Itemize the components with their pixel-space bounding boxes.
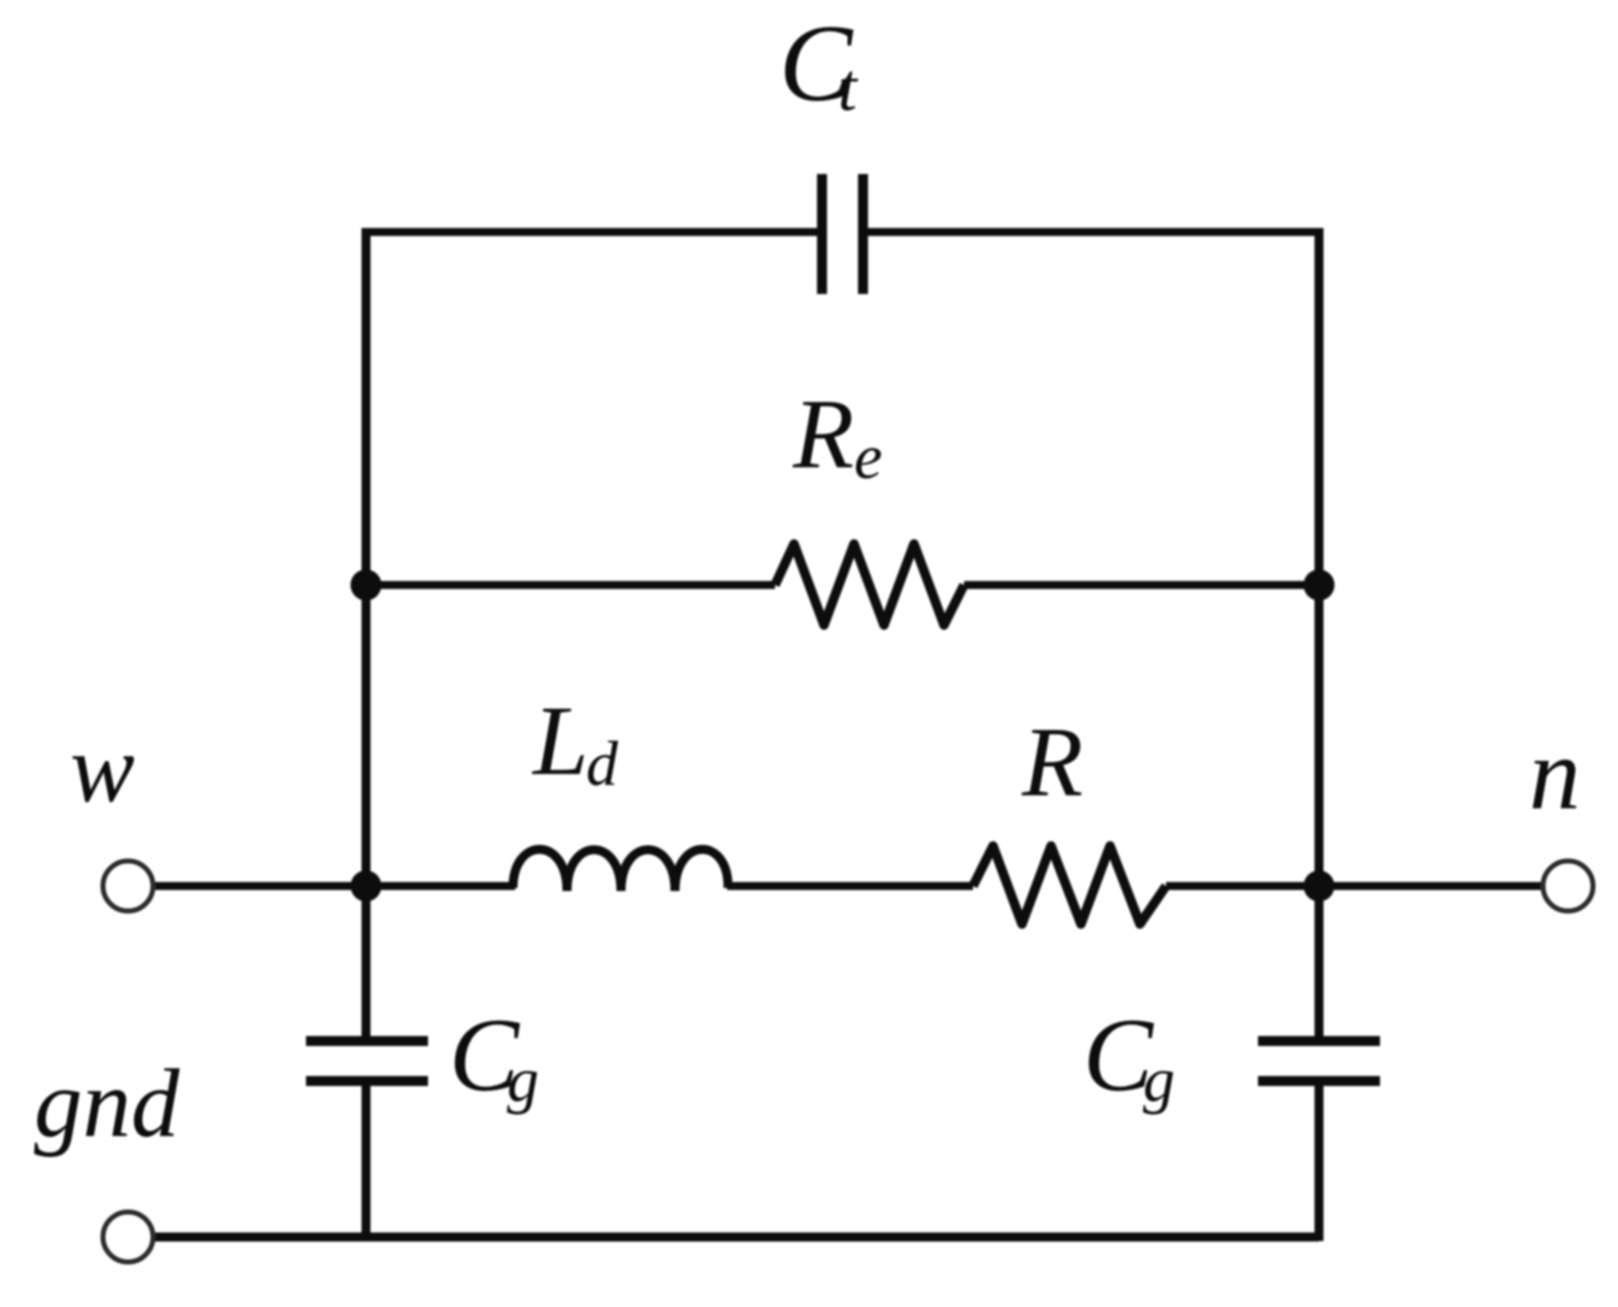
svg-text:gnd: gnd	[34, 1050, 180, 1157]
svg-text:R: R	[1021, 706, 1083, 817]
svg-text:g: g	[507, 1044, 539, 1115]
svg-text:R: R	[792, 378, 854, 489]
svg-text:L: L	[531, 685, 589, 796]
svg-text:g: g	[1143, 1044, 1175, 1115]
svg-text:w: w	[70, 715, 135, 822]
svg-text:d: d	[586, 728, 619, 799]
svg-text:n: n	[1529, 717, 1581, 831]
svg-text:t: t	[838, 49, 859, 125]
svg-text:e: e	[854, 421, 882, 492]
